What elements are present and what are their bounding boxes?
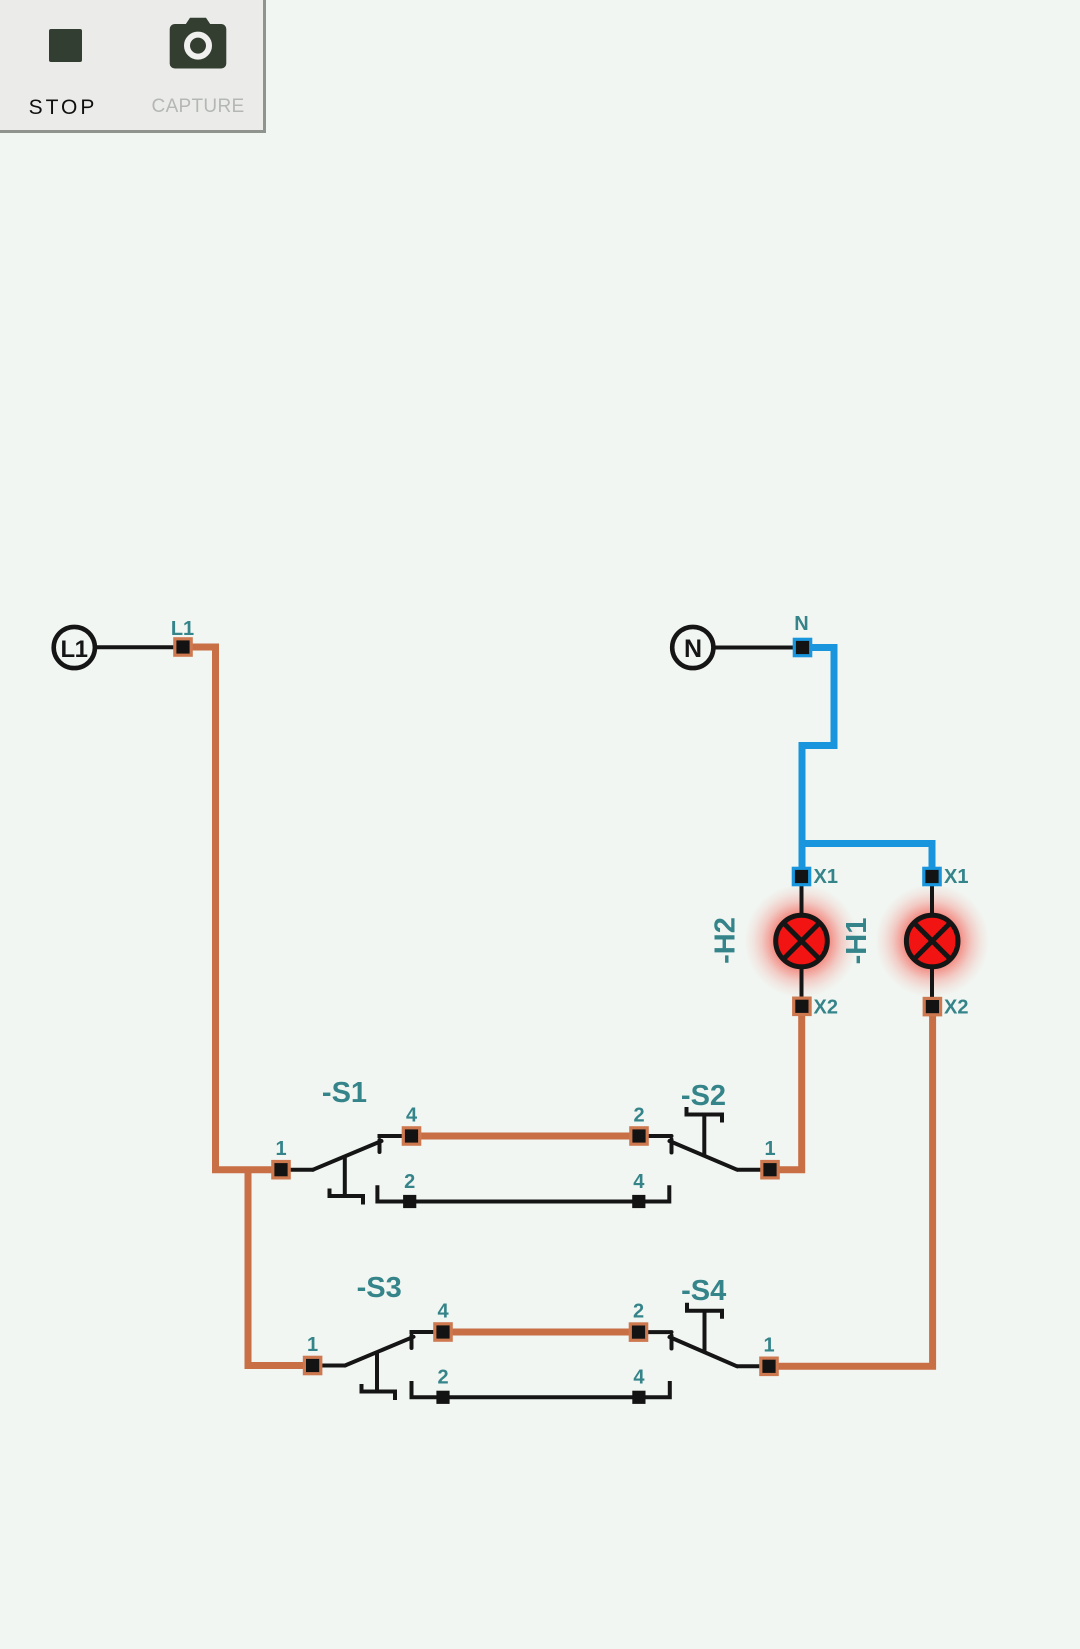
svg-text:-S3: -S3 (357, 1272, 402, 1304)
svg-text:X1: X1 (944, 866, 968, 888)
svg-text:X2: X2 (814, 997, 838, 1019)
svg-text:1: 1 (764, 1138, 775, 1160)
svg-text:N: N (684, 635, 702, 663)
svg-text:-S4: -S4 (681, 1275, 726, 1307)
svg-text:1: 1 (763, 1335, 774, 1357)
svg-text:4: 4 (437, 1301, 449, 1323)
svg-text:-H1: -H1 (841, 918, 873, 965)
svg-text:L1: L1 (171, 618, 194, 640)
svg-text:4: 4 (406, 1105, 418, 1127)
svg-text:-S1: -S1 (322, 1077, 367, 1109)
svg-text:-S2: -S2 (681, 1080, 726, 1112)
svg-text:X2: X2 (944, 997, 968, 1019)
svg-text:1: 1 (275, 1138, 286, 1160)
svg-text:4: 4 (633, 1171, 645, 1193)
svg-text:N: N (794, 613, 808, 635)
svg-text:1: 1 (307, 1334, 318, 1356)
svg-text:2: 2 (404, 1171, 415, 1193)
svg-text:2: 2 (633, 1105, 644, 1127)
svg-text:2: 2 (437, 1367, 448, 1389)
svg-text:L1: L1 (60, 636, 87, 663)
svg-text:X1: X1 (814, 866, 838, 888)
svg-text:-H2: -H2 (710, 917, 742, 964)
svg-text:2: 2 (633, 1301, 644, 1323)
svg-text:4: 4 (633, 1367, 645, 1389)
